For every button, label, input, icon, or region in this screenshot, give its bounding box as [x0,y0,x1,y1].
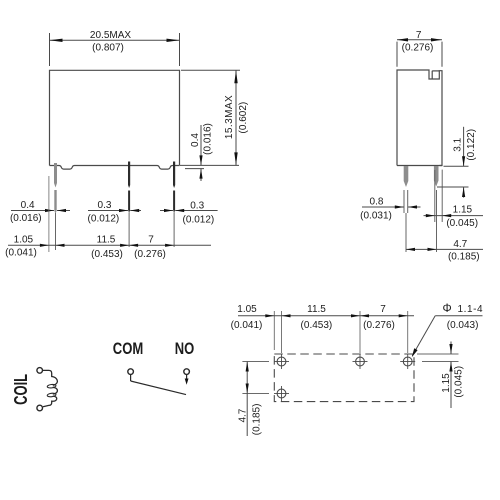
svg-text:(0.041): (0.041) [231,320,263,331]
svg-text:Φ 1.1-4: Φ 1.1-4 [443,303,484,315]
pin1 width dim 0.4: left line [11,210,54,212]
svg-text:11.5: 11.5 [97,235,116,246]
svg-text:(0.185): (0.185) [251,404,262,436]
pin3 width dim 0.3: left line [160,210,173,212]
svg-text:11.5: 11.5 [307,304,326,315]
arrow right at pin2 [119,209,128,212]
0.8 dim: left line [362,206,404,208]
case bottom edge with standoff bumps [50,166,180,170]
arrow down standoff [199,155,202,165]
right line [57,210,70,212]
svg-text:7: 7 [148,235,154,246]
COM lead [130,375,132,381]
pin 3 extension line [173,213,175,248]
arrow left at hole C [360,314,369,317]
layout top dim extension lines [274,311,407,353]
svg-text:(0.276): (0.276) [134,249,166,260]
pin 1 (coil pin, front view) [54,163,57,214]
layout top dim line [238,315,414,317]
arrow right at 436.5 [428,248,437,251]
svg-text:0.8: 0.8 [370,196,384,207]
svg-text:1.05: 1.05 [237,304,257,315]
svg-text:(0.031): (0.031) [360,210,392,221]
pin 2 extension line [128,213,130,248]
arrow right at pin1 [45,209,54,212]
dimension 20.5MAX line [50,39,180,41]
hole C [353,354,368,369]
arrow left at pin2 [130,209,139,212]
NO terminal [184,369,190,375]
right line [130,210,141,212]
pin 1 extension line [55,213,57,250]
arrow right at left pin [395,205,404,208]
footprint dashed outline [274,354,414,402]
arrow left at left pin [408,205,417,208]
line between ext lines [49,244,211,246]
arrow up standoff [199,169,202,179]
svg-text:(0.043): (0.043) [447,320,479,331]
svg-text:4.7: 4.7 [238,408,249,422]
coil winding [43,370,58,406]
arrow left at pin1 (11.5 left) [56,244,65,247]
svg-text:COIL: COIL [11,374,31,405]
4.7 dim (layout) extension lines [242,362,269,394]
arrow right at hole D [399,314,408,317]
arrow down 15.3 [234,152,237,165]
standoff 0.4 dim vertical line lower [200,169,202,181]
NO arrowhead [185,379,189,385]
arrow up 4.7 layout [246,362,249,372]
coil loop back 1 [47,384,56,388]
arrow right at 434.8 [426,214,435,217]
svg-text:(0.045): (0.045) [446,218,478,229]
side pin left [404,166,409,187]
dimension 15.3MAX extension lines [180,70,240,165]
arrow down 1.15 layout [449,344,452,354]
1.15 dim vertical lower [450,362,452,409]
svg-text:0.3: 0.3 [190,200,204,211]
4.7 dim line [406,248,483,250]
svg-text:(0.276): (0.276) [363,320,395,331]
svg-text:4.7: 4.7 [453,239,467,250]
svg-text:0.4: 0.4 [21,200,35,211]
hole A [274,354,289,369]
hole D [400,354,415,369]
arrow left 20.5 [50,39,63,42]
coil terminal top [37,368,43,374]
svg-text:15.3MAX: 15.3MAX [224,95,235,139]
pin pitch dim line row: 1.05 left line [8,244,49,246]
svg-text:NO: NO [175,339,195,358]
relay case outline (side view) with top notch [397,70,442,166]
side pin left center extension [405,213,407,252]
case bottom edge (side view) [397,165,442,167]
case right edge extension down [441,170,443,222]
notch inner wall [431,71,433,79]
arrow right at case edge [40,244,49,247]
arrow left at 406 [406,248,415,251]
svg-text:(0.453): (0.453) [301,320,333,331]
arrow down 4.7 layout [246,384,249,394]
3.1 dim extension lines [437,166,469,187]
svg-text:1.15: 1.15 [453,205,473,216]
arrow up 3.1 [462,187,465,197]
standoff 0.4 dim: lower extension line [185,168,204,170]
arrow right at pin3 [164,209,173,212]
svg-text:0.4: 0.4 [190,133,201,147]
side pin right center extension [436,190,438,252]
side pin right [434,166,439,187]
leader arrowhead [412,348,418,357]
notch box top [432,70,439,72]
arrow right at pin2 (11.5 right) [120,244,129,247]
svg-text:(0.012): (0.012) [88,214,120,225]
4.7 dim vertical line [246,362,248,437]
svg-text:20.5MAX: 20.5MAX [90,30,131,41]
svg-text:0.3: 0.3 [98,200,112,211]
dimension 15.3MAX line [235,70,237,165]
arrow right at pin3 (7 right) [165,244,174,247]
arrow left at pin2 (7 left) [129,244,138,247]
svg-text:(0.185): (0.185) [448,251,480,262]
svg-text:7: 7 [416,30,422,41]
arrow left at pin1 [57,209,66,212]
svg-text:(0.453): (0.453) [91,249,123,260]
pin 3 (front view) [173,162,175,214]
arrow left at 442.2 [442,214,451,217]
arrow down 3.1 [462,156,465,166]
svg-text:7: 7 [380,304,386,315]
svg-text:(0.016): (0.016) [10,213,42,224]
1.15 dim line [424,215,484,217]
svg-text:(0.041): (0.041) [5,247,37,258]
dimension 7 extension lines [397,42,442,67]
arrow right at footprint edge [265,314,274,317]
coil terminal bottom [37,405,43,411]
relay case outline (front view) [50,70,180,165]
arrow left at hole A [282,314,291,317]
svg-text:COM: COM [113,339,144,358]
standoff 0.4 dim vertical line upper [200,125,202,165]
arrow left 7 [397,38,408,41]
svg-text:(0.602): (0.602) [238,102,249,134]
svg-text:(0.276): (0.276) [402,43,434,54]
NO arrow stem [186,375,188,380]
svg-text:(0.045): (0.045) [454,366,465,398]
arrow up 1.15 layout [449,362,452,372]
svg-text:3.1: 3.1 [452,137,463,151]
svg-text:(0.016): (0.016) [202,123,213,155]
underline phi [435,315,482,317]
COM terminal [128,369,134,375]
right pin ext line (pin left edge) [434,170,436,222]
arrow right 7 [431,38,442,41]
1.15 dim (layout) extension lines [417,354,459,362]
arrow right at hole C [351,314,360,317]
svg-text:1.05: 1.05 [14,234,34,245]
svg-text:1.15: 1.15 [441,373,452,393]
1.15 dim vertical upper [450,342,452,355]
svg-text:(0.012): (0.012) [183,215,215,226]
svg-text:(0.807): (0.807) [92,43,124,54]
leader line to hole D [412,316,435,356]
arrow right 20.5 [167,39,180,42]
left case edge extension line [48,176,50,252]
dimension 7 line [397,39,442,41]
side pin left edge extension lines [403,190,405,213]
svg-text:(0.122): (0.122) [466,129,477,161]
pin 2 (front view) [128,162,130,214]
switch arm COM to NO [131,381,186,395]
dimension 20.5MAX extension lines [50,33,180,66]
3.1 dim vertical upper [463,127,465,167]
arrow up 15.3 [234,70,237,83]
pin2 width dim 0.3: left line [88,210,128,212]
hole B [274,386,289,401]
coil loop back 2 [47,393,56,397]
arrow left at pin3 [175,209,184,212]
right line [175,210,217,212]
right line [408,206,421,208]
3.1 dim vertical lower [463,187,465,198]
